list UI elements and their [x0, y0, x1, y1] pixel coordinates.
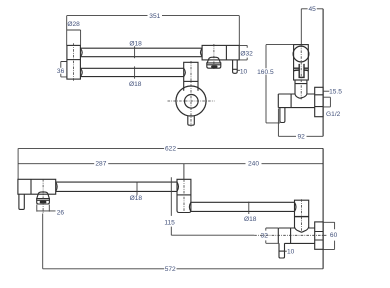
throat dome: [295, 94, 307, 98]
dimension 622: [18, 147, 323, 149]
svg-text:G1/2: G1/2: [326, 111, 341, 118]
handle dome (view C): [37, 192, 50, 199]
flange inner lines (view C): [315, 232, 323, 241]
outlet stub 10 (view C): [279, 243, 285, 258]
svg-text:Ø28: Ø28: [67, 21, 80, 28]
upper arm right fillet arc: [201, 48, 203, 57]
leader 10 (view C): [285, 250, 287, 252]
handle slot (dark): [211, 66, 217, 69]
spout stub (view A): [233, 60, 238, 73]
dimension Ø28 line: [67, 30, 81, 45]
joint centerline: [183, 179, 185, 213]
swivel joint divider: [184, 80, 198, 82]
svg-text:115: 115: [164, 219, 175, 226]
upper arm (view C): [56, 182, 177, 191]
svg-text:15.5: 15.5: [329, 89, 342, 96]
stub divider: [279, 250, 285, 252]
svg-text:26: 26: [57, 209, 65, 216]
leader 15.5: [323, 90, 329, 92]
leader 10: [237, 69, 240, 71]
dimension 60 bracket: [323, 222, 335, 249]
joint extension line: [183, 164, 185, 180]
handle base (view A): [207, 63, 221, 68]
outlet stub (view C): [19, 194, 24, 209]
dimension 115 line: [171, 177, 254, 235]
svg-text:Ø18: Ø18: [129, 40, 142, 47]
Ø18 tick lower: [134, 66, 136, 78]
elbow divider: [295, 216, 309, 218]
valve body (view A): [202, 45, 239, 60]
svg-text:10: 10: [240, 68, 248, 75]
wall line (view C): [322, 148, 324, 268]
svg-text:92: 92: [298, 133, 306, 140]
dimension 26: [37, 205, 56, 212]
swivel outer circle: [176, 86, 206, 116]
valve centerline: [213, 44, 215, 69]
svg-text:351: 351: [149, 13, 160, 20]
svg-text:572: 572: [165, 266, 176, 273]
dimension 92: [278, 109, 323, 137]
handle base (view C): [37, 199, 50, 204]
svg-text:240: 240: [248, 160, 259, 167]
lower arm tube (view A): [80, 68, 183, 76]
fork ticks: [294, 68, 309, 71]
swivel joint body (view A): [184, 62, 198, 91]
dimension 572: [43, 268, 323, 270]
lower arm (view C): [191, 202, 295, 211]
dimension G1/2 bracket: [323, 97, 330, 107]
middle joint divider: [177, 194, 191, 196]
centerline right assembly horizontal: [254, 234, 326, 236]
stem (view B): [299, 64, 304, 78]
dimension 32 bracket: [266, 228, 278, 243]
dimension 160.5: [266, 45, 294, 123]
upper arm tube (view A): [80, 48, 202, 57]
handle base line: [37, 199, 50, 201]
elbow centerline: [300, 199, 302, 232]
svg-text:60: 60: [330, 232, 338, 239]
left body divider: [30, 179, 32, 194]
dimension 351 line: [67, 16, 240, 46]
left extension line: [17, 148, 19, 179]
centerline (view B): [300, 45, 302, 100]
upper arm right fillet: [177, 182, 179, 191]
svg-text:Ø32: Ø32: [240, 51, 253, 58]
elbow dome: [295, 227, 309, 232]
flange centerline: [73, 43, 75, 81]
extension to 572: [42, 214, 44, 269]
svg-text:622: 622: [165, 146, 176, 153]
svg-text:32: 32: [261, 233, 269, 240]
centerline left assembly: [42, 179, 44, 214]
svg-text:160.5: 160.5: [257, 69, 274, 76]
inlet stub (view B): [280, 107, 285, 122]
svg-text:Ø18: Ø18: [129, 81, 142, 88]
lower arm left fillet: [189, 202, 191, 211]
flange (view C): [315, 222, 323, 249]
stem bottom: [299, 76, 304, 78]
swivel inner circle: [185, 95, 199, 109]
handle base line: [207, 64, 221, 66]
svg-text:Ø18: Ø18: [130, 195, 143, 202]
svg-text:287: 287: [95, 161, 106, 168]
wall flange divider: [67, 59, 81, 61]
body (view B): [278, 94, 314, 108]
wall flange (left, view A): [67, 45, 81, 79]
swivel vertical centerline: [190, 61, 192, 127]
pivot circle: [293, 46, 309, 62]
lower arm left fillet arc: [80, 68, 82, 76]
wall line (view B): [322, 9, 324, 137]
right body (view C): [278, 228, 314, 243]
middle joint (view C): [177, 179, 191, 212]
Ø18 tick upper: [134, 46, 136, 58]
flange inner lines: [315, 95, 323, 107]
upper arm left fillet arc: [80, 48, 82, 57]
upper arm left fillet: [56, 182, 58, 191]
throat (view B): [295, 80, 307, 94]
spout stub divider: [233, 68, 238, 70]
lower arm right fillet arc: [184, 68, 186, 76]
swivel horizontal centerline: [168, 100, 215, 102]
dimension 45: [301, 9, 323, 45]
dimension 36 bracket: [61, 62, 67, 77]
Ø18 tick (arm2, view C): [248, 202, 250, 214]
left body (view C): [18, 179, 56, 194]
handle dome (view A): [207, 57, 220, 63]
lower arm right fillet: [295, 202, 297, 211]
svg-text:36: 36: [57, 68, 65, 75]
pivot box (view B): [294, 45, 309, 80]
svg-text:45: 45: [309, 6, 317, 13]
flange (view B): [315, 87, 323, 116]
Ø18 tick (arm1, view C): [136, 182, 138, 196]
dimension Ø32 bracket: [239, 45, 247, 60]
svg-text:10: 10: [287, 248, 295, 255]
swivel stem: [188, 116, 195, 125]
elbow (view C): [295, 200, 309, 227]
dimension 287/240 line: [18, 163, 323, 165]
valve body divider: [225, 45, 227, 60]
svg-text:Ø18: Ø18: [244, 216, 257, 223]
handle slot (dark, view C): [40, 201, 47, 204]
